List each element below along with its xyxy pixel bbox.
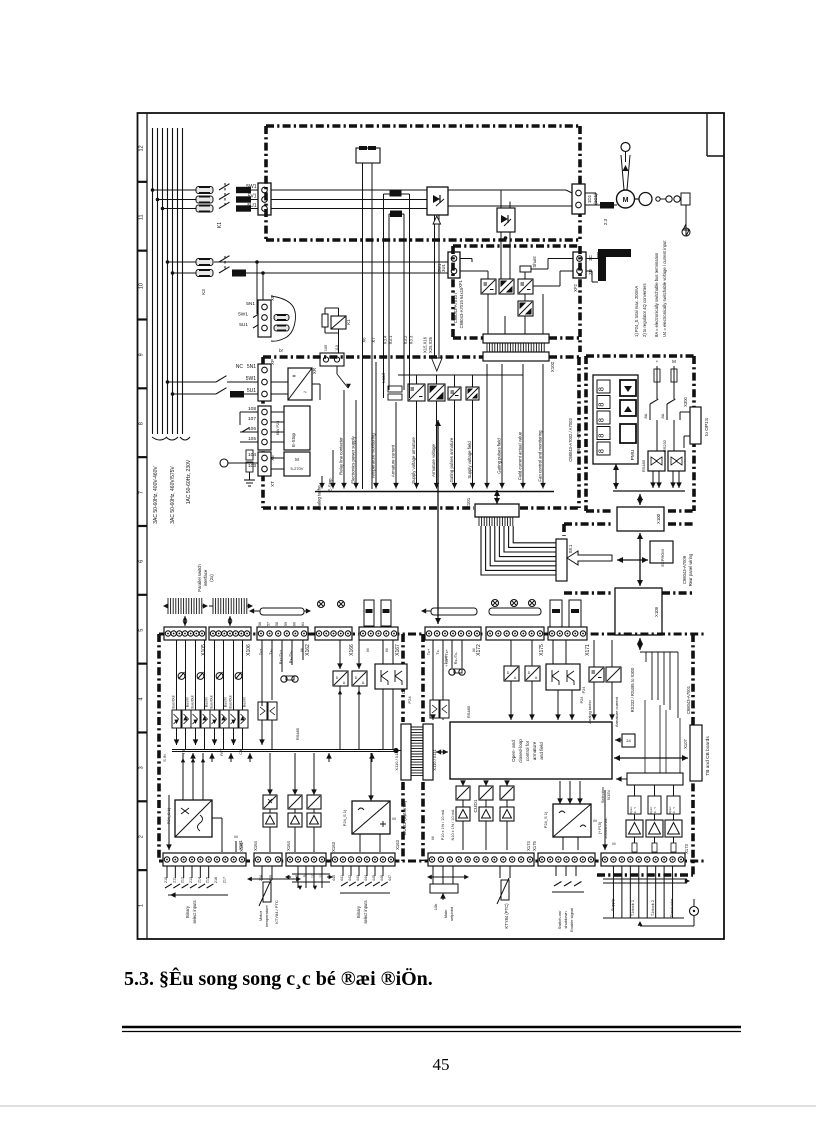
field winding (black L shape) [586, 258, 598, 260]
jumper box 1 [628, 796, 641, 814]
svg-text:A: A [343, 681, 346, 685]
svg-text:3: 3 [139, 766, 145, 769]
svg-text:Gating pulses field: Gating pulses field [497, 438, 502, 474]
electronics supply wires [166, 380, 170, 384]
KTY84 sensor CUD1 [499, 866, 501, 878]
jumper box 3 [667, 796, 680, 814]
svg-text:Binary: Binary [185, 905, 190, 918]
supply group brace 3 [180, 437, 190, 440]
svg-text:110: 110 [335, 345, 339, 351]
terminal 3U1 3W1 [448, 252, 460, 278]
wire armature phase 2 [158, 199, 197, 201]
relay wire to E-stop chain [336, 366, 338, 374]
svg-text:A: A [362, 681, 365, 685]
svg-text:4: 4 [139, 698, 145, 701]
svg-text:setpoint: setpoint [449, 906, 454, 921]
svg-text:D: D [355, 676, 358, 680]
svg-text:Tx-: Tx- [436, 649, 440, 655]
field converter square 1 [481, 279, 496, 294]
analog output converter CUD1 [553, 804, 591, 837]
field gating thyristor block [497, 208, 515, 232]
field converter square 2 (black) [499, 279, 514, 294]
svg-text:Bus/Out: Bus/Out [172, 696, 176, 709]
comb to strip arrows [184, 616, 186, 626]
svg-text:X173: X173 [684, 843, 689, 853]
long gating arrow from power section to CUD1 [437, 420, 439, 624]
main contactor K1 contacts [219, 184, 230, 190]
CUD1 dash-dot enclosure [421, 634, 425, 722]
svg-text:X - Y: X - Y [633, 807, 637, 813]
terminal strip X175 [486, 627, 544, 640]
svg-text:E-Stop: E-Stop [291, 433, 296, 447]
X100 connector [639, 494, 641, 505]
signal drop: Analog tacho [321, 476, 323, 489]
PMU key P [620, 424, 636, 443]
svg-text:58: 58 [275, 622, 279, 626]
svg-text:105: 105 [248, 436, 256, 442]
svg-text:5V1: 5V1 [248, 194, 257, 200]
svg-text:M: M [472, 648, 476, 651]
svg-text:107: 107 [248, 416, 256, 422]
field wire 1 [168, 261, 197, 263]
armature thyristor block [427, 187, 448, 215]
svg-text:Temperature monitoring: Temperature monitoring [371, 433, 376, 479]
svg-text:M: M [392, 816, 395, 821]
svg-text:Analog tacho: Analog tacho [587, 700, 592, 724]
svg-text:A: A [535, 676, 538, 680]
svg-text:Bus/Out: Bus/Out [210, 696, 214, 709]
driver triangles [626, 820, 643, 837]
svg-text:RS232 / RS485 to X300: RS232 / RS485 to X300 [630, 667, 635, 712]
interface converter columns CUD2 [263, 795, 277, 809]
tacho range box [284, 452, 310, 476]
svg-text:Armature current: Armature current [391, 444, 396, 477]
svg-text:CUD2 (optional): CUD2 (optional) [402, 800, 408, 835]
CPU to TB boards arrow [614, 757, 688, 759]
svg-text:1AC 50-60Hz, 230V: 1AC 50-60Hz, 230V [186, 459, 192, 504]
svg-text:armature: armature [532, 741, 537, 760]
svg-text:br: br [279, 348, 284, 353]
relay K1 coil with suppressor [322, 314, 328, 327]
binary outputs CUD2 wiring [297, 866, 299, 888]
wires serial pins down [281, 640, 283, 672]
X102 connector lower bar [483, 352, 549, 361]
svg-text:X15,X16: X15,X16 [423, 336, 428, 353]
svg-text:8A = electronically switchable: 8A = electronically switchable bus termi… [654, 252, 659, 337]
svg-text:108: 108 [248, 406, 256, 412]
svg-text:temperature: temperature [264, 904, 269, 926]
X110 X111 ribbon connector [401, 724, 411, 780]
svg-text:P10 ± 1% / 10 mA: P10 ± 1% / 10 mA [441, 809, 445, 840]
tacho input network [220, 459, 228, 467]
svg-text:P24: P24 [580, 697, 584, 704]
power section converter dash-dot enclosure [266, 124, 580, 128]
svg-text:8: 8 [139, 422, 145, 425]
PMU dash-dot enclosure [586, 354, 694, 358]
svg-text:M: M [672, 359, 676, 364]
svg-text:(2x): (2x) [209, 574, 214, 582]
binary select inputs CUD2 group2 [342, 866, 344, 876]
signal drop: Temperature monitoring [375, 362, 377, 489]
svg-text:Open- and: Open- and [511, 740, 516, 762]
svg-text:Bus/Out: Bus/Out [229, 696, 233, 709]
field section dash-dot enclosure [451, 246, 455, 338]
X109 riser wires [640, 652, 678, 718]
svg-text:Motor: Motor [258, 910, 263, 921]
svg-text:Supply: Supply [610, 899, 615, 911]
riser lines from selection to X109 [645, 700, 680, 773]
svg-text:K1: K1 [217, 222, 223, 228]
svg-text:X164: X164 [253, 840, 258, 850]
field XP supply tap lines [256, 262, 258, 314]
svg-text:XF2: XF2 [573, 283, 578, 291]
svg-text:Rx-/Tx-: Rx-/Tx- [454, 651, 458, 664]
X102 unlabeled drop [486, 364, 488, 489]
svg-text:+: + [656, 359, 659, 364]
svg-text:Bus/Out: Bus/Out [191, 696, 195, 709]
svg-text:RS485: RS485 [641, 459, 646, 472]
optocoupler pair 2 [195, 640, 197, 710]
svg-text:5W1: 5W1 [246, 376, 257, 382]
svg-text:X3.1: X3.1 [388, 335, 393, 344]
svg-text:X175: X175 [539, 644, 545, 656]
X109 connector [615, 588, 662, 635]
svg-text:X8.1: X8.1 [568, 544, 573, 553]
svg-text:X107: X107 [683, 738, 688, 748]
svg-text:65V P24: 65V P24 [276, 421, 280, 436]
svg-text:M: M [385, 648, 389, 651]
main internal bus CUD boards [172, 749, 394, 751]
supply group brace 2 [166, 437, 178, 440]
svg-text:X100: X100 [656, 513, 661, 524]
terminal strip X167 [359, 627, 398, 640]
svg-text:C98043-A7002 / A7003: C98043-A7002 / A7003 [568, 418, 573, 462]
svg-text:X - Y: X - Y [672, 807, 676, 813]
svg-text:X171: X171 [585, 644, 591, 656]
interface converter columns CUD1 [456, 786, 470, 800]
signal drop: Armature voltage [436, 401, 438, 489]
svg-text:2) to regulator 4Q converters: 2) to regulator 4Q converters [642, 283, 647, 337]
svg-text:E-Stop: E-Stop [328, 478, 333, 492]
tacho generator [635, 198, 640, 200]
svg-text:Binary: Binary [356, 905, 361, 918]
speed feedback to pulse encoder [621, 155, 624, 190]
svg-text:closed-loop: closed-loop [518, 739, 523, 763]
terminal strip X174 CUD1 [428, 853, 534, 866]
svg-text:X106: X106 [246, 644, 252, 656]
svg-text:K1: K1 [346, 319, 351, 325]
svg-text:A: A [514, 676, 517, 680]
svg-text:61: 61 [301, 622, 305, 626]
field switch contacts [219, 256, 230, 262]
P24 converter feeds [182, 753, 184, 800]
svg-text:Load: Load [381, 373, 386, 383]
field XP flag outline [271, 296, 296, 341]
wire field output [531, 268, 548, 270]
svg-text:X - Y: X - Y [653, 807, 657, 813]
wires to terminal 1U1/1V1/1W1 [251, 189, 258, 191]
svg-text:T-block 2: T-block 2 [650, 899, 655, 916]
internal signal bus line [315, 491, 554, 493]
D/A converter 1 [333, 671, 348, 686]
field supply tap junctions [166, 260, 170, 264]
svg-text:Supply voltage field: Supply voltage field [467, 441, 472, 479]
armature sensing converter square 4 [466, 387, 479, 400]
svg-text:Analog tacho: Analog tacho [317, 485, 322, 511]
svg-text:Supply voltage armature: Supply voltage armature [411, 437, 416, 484]
svg-text:CUD1: CUD1 [473, 799, 479, 812]
signal drop: Supply voltage armature [416, 401, 418, 489]
svg-text:8A: 8A [660, 413, 665, 418]
svg-text:M: M [612, 842, 615, 846]
svg-text:1) P24_S total max. 200mA: 1) P24_S total max. 200mA [634, 286, 639, 337]
parallel interface comb 1 [168, 598, 202, 614]
snubber loop inner with reactor [388, 214, 390, 390]
X101 ribbon comb [479, 517, 513, 526]
power interface dash-dot enclosure [263, 355, 483, 359]
svg-text:X300: X300 [683, 396, 688, 406]
svg-text:447: 447 [388, 875, 392, 881]
armature gating converter square 1 [408, 384, 425, 401]
svg-text:2: 2 [139, 835, 145, 838]
svg-text:KTY84 / PTC: KTY84 / PTC [274, 900, 279, 924]
svg-text:Enable signal: Enable signal [569, 908, 574, 932]
EEPROM horizontal double arrow [617, 559, 648, 561]
svg-text:XR: XR [312, 368, 317, 374]
optocoupler pair 3 [214, 640, 216, 710]
svg-text:8A: 8A [643, 413, 648, 418]
svg-text:216: 216 [214, 877, 218, 883]
svg-text:5W1: 5W1 [238, 312, 248, 318]
CUD2 dash-dot enclosure [157, 634, 161, 861]
svg-text:Gating pulses armature: Gating pulses armature [449, 437, 454, 482]
svg-text:X167: X167 [395, 644, 401, 656]
PMU key down [620, 380, 636, 396]
svg-text:XT: XT [270, 481, 275, 487]
terminal strip X175b [538, 853, 595, 866]
D/A pair CUD1 [504, 666, 519, 681]
svg-text:2.3: 2.3 [603, 218, 608, 225]
X107 connector TB CB boards [690, 725, 702, 781]
RS485 driver block [648, 451, 665, 471]
tacho drop to analog input [685, 205, 687, 224]
switch contacts field XP [253, 313, 260, 317]
terminal strip X105 [164, 627, 206, 640]
svg-text:X3.3: X3.3 [409, 335, 414, 344]
svg-text:5U1: 5U1 [239, 322, 248, 328]
gating cable twin lines to armature converter [434, 215, 436, 358]
svg-text:11: 11 [139, 214, 145, 220]
motor temperature sensor CUD2 [261, 866, 263, 880]
svg-text:X6: X6 [362, 337, 367, 343]
svg-text:24: 24 [626, 738, 631, 743]
tacho analog converter pair [589, 667, 604, 682]
svg-text:Armature voltage: Armature voltage [431, 444, 436, 477]
jumper circles CUD1 [492, 600, 499, 607]
jumper circles [318, 601, 325, 608]
svg-text:X181: X181 [239, 841, 244, 851]
svg-text:60: 60 [292, 622, 296, 626]
signal drop: Supply voltage field [472, 400, 474, 489]
svg-text:interface: interface [203, 569, 208, 586]
motor M [617, 190, 635, 208]
svg-text:X25,X26: X25,X26 [428, 336, 433, 353]
signal drop: Gating pulses armature [454, 400, 456, 489]
svg-text:M: M [366, 648, 370, 651]
PMU operator panel [593, 375, 638, 464]
svg-text:S IN: S IN [163, 754, 167, 762]
terminal X1 armature [258, 183, 271, 215]
svg-text:5: 5 [139, 629, 145, 632]
E-stop external contacts [240, 411, 258, 413]
terminal strip X172 [425, 627, 481, 640]
svg-text:XF1: XF1 [458, 279, 463, 287]
svg-text:X175: X175 [532, 840, 537, 850]
X102 connector upper bar [483, 334, 549, 343]
svg-text:9: 9 [139, 353, 145, 356]
supply and terminator wiring [612, 866, 614, 918]
signal drop: Fan control and monitoring [542, 364, 544, 489]
terminal strip X164a [254, 853, 282, 866]
optocoupler pair 1 [176, 640, 178, 710]
armature circuit wires across power section [271, 189, 566, 191]
svg-text:KTY84 (PTC): KTY84 (PTC) [504, 903, 509, 929]
svg-text:Rear panel wiring: Rear panel wiring [688, 553, 693, 586]
svg-text:C98043-A7001: C98043-A7001 [686, 685, 691, 714]
serial port bus bar [260, 608, 304, 615]
svg-text:1 set: 1 set [443, 655, 448, 665]
X101 connector with double arrow [496, 490, 498, 504]
binary select inputs CUD2 wiring [166, 866, 168, 878]
svg-text:P24_S 1): P24_S 1) [342, 809, 347, 826]
svg-text:X7: X7 [371, 337, 376, 343]
connector X8 [556, 539, 567, 581]
svg-text:10k: 10k [433, 904, 438, 910]
signal drop: Field current actual value [522, 364, 524, 489]
terminal strip X164b [286, 853, 326, 866]
tacho cable to terminal [660, 198, 666, 200]
field wires to terminal [214, 261, 448, 263]
svg-text:X101: X101 [466, 497, 471, 508]
svg-text:440: 440 [332, 875, 336, 881]
svg-text:and field: and field [539, 742, 544, 760]
svg-text:Terminator: Terminator [669, 898, 674, 918]
D/A converter 2 [352, 671, 367, 686]
svg-text:K3: K3 [201, 289, 206, 295]
X100-X109 vertical double arrow [639, 533, 641, 586]
svg-text:Relay line contactor: Relay line contactor [339, 437, 344, 475]
svg-text:10: 10 [139, 283, 145, 289]
svg-text:D: D [336, 676, 339, 680]
svg-text:P24_S 1): P24_S 1) [543, 811, 548, 828]
svg-text:5N1: 5N1 [246, 301, 255, 307]
jumper box 2 [648, 796, 661, 814]
gating rail line [398, 374, 523, 376]
fan supply lines down [362, 163, 364, 489]
main setpoint potentiometer [432, 866, 434, 884]
page frame inner left line [146, 113, 148, 939]
signal drop: Relay line contactor [343, 390, 345, 489]
field converter square 3 [518, 279, 533, 294]
field converter square 4 (black) [518, 301, 533, 316]
svg-text:M: M [234, 834, 237, 839]
svg-text:EEPROM: EEPROM [660, 549, 665, 566]
svg-text:45: 45 [433, 1055, 450, 1074]
svg-text:Bus/In: Bus/In [186, 697, 190, 707]
svg-text:M: M [431, 836, 435, 839]
serial bus bar CUD1 [489, 608, 541, 615]
svg-text:3AC 50-60Hz, 460V/575V: 3AC 50-60Hz, 460V/575V [170, 466, 176, 524]
rear panel wiring dash-dot enclosure [564, 522, 612, 526]
svg-text:X164: X164 [286, 840, 291, 850]
svg-text:PMU: PMU [630, 449, 636, 460]
wire to motor fuse [585, 204, 600, 206]
pull resistors [632, 843, 637, 852]
svg-text:X110 / X111: X110 / X111 [394, 749, 399, 771]
commutation reactor armature (black) [236, 187, 251, 193]
svg-text:X163: X163 [331, 841, 336, 851]
svg-text:Electronics power supply: Electronics power supply [351, 435, 356, 483]
svg-text:select inputs: select inputs [363, 900, 368, 923]
svg-text:Armature current: Armature current [614, 696, 619, 727]
field wire 2 [173, 272, 197, 274]
svg-text:5U1: 5U1 [247, 388, 256, 394]
svg-text:C98043-A7015 64x15: C98043-A7015 64x15 [459, 287, 464, 328]
svg-text:106: 106 [248, 426, 256, 432]
X102 ribbon comb [487, 343, 544, 352]
parallel interface comb 2 [213, 598, 247, 614]
armature supply tap junctions [151, 188, 155, 192]
svg-text:5N1: 5N1 [247, 364, 256, 370]
svg-text:TB and CB boards: TB and CB boards [705, 736, 711, 776]
terminal strip X181 [163, 853, 246, 866]
EEPROM [650, 541, 673, 563]
fuses F1 armature [196, 187, 213, 194]
ribbon to CPU arrow [436, 751, 448, 753]
svg-text:5U1: 5U1 [247, 203, 256, 209]
svg-text:12: 12 [139, 145, 145, 151]
supply group brace 1 [152, 437, 167, 440]
svg-text:1D1: 1D1 [587, 194, 592, 203]
svg-text:(+ P15): (+ P15) [598, 821, 602, 834]
svg-text:5/15V: 5/15V [606, 789, 611, 800]
P24 converter CUD2 [175, 800, 212, 837]
title block notch top right [706, 113, 708, 156]
svg-text:X174: X174 [526, 840, 531, 850]
wire armature phase 3 [163, 208, 197, 210]
serial wires to X300 [656, 390, 658, 399]
svg-text:X3.4: X3.4 [383, 335, 388, 344]
X300 connector [690, 407, 701, 444]
relay link boxes [364, 600, 374, 626]
svg-text:56: 56 [258, 622, 262, 626]
svg-text:P24: P24 [407, 696, 412, 704]
svg-text:M: M [623, 197, 629, 204]
svg-text:Main: Main [443, 910, 448, 919]
optocoupler pair 4 [233, 640, 235, 710]
field wires into X102 [487, 294, 489, 334]
terminal 3C 3D [573, 252, 586, 278]
armature sensing converter square 3 [448, 387, 461, 400]
snubber loop outer with reactor [383, 194, 385, 398]
PMU internal bus [613, 490, 685, 492]
svg-text:Shunt: Shunt [532, 256, 537, 268]
analog tacho terminal XT [258, 452, 271, 476]
svg-text:select inputs: select inputs [192, 900, 197, 923]
svg-text:T-block 1: T-block 1 [630, 899, 635, 916]
AC supply bus lines [152, 128, 154, 434]
svg-text:M: M [295, 457, 299, 462]
